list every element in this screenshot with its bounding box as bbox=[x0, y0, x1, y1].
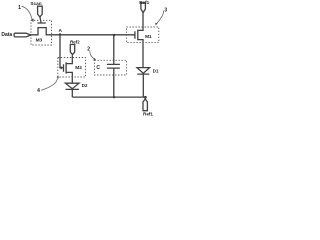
svg-text:Data: Data bbox=[1, 32, 12, 38]
svg-text:Ref1: Ref1 bbox=[143, 111, 153, 116]
svg-text:3: 3 bbox=[164, 8, 167, 14]
svg-text:C: C bbox=[96, 65, 100, 71]
svg-text:D1: D1 bbox=[153, 68, 159, 73]
svg-text:2: 2 bbox=[87, 47, 90, 53]
svg-text:D2: D2 bbox=[82, 83, 88, 88]
svg-text:M3: M3 bbox=[36, 38, 43, 44]
svg-text:Ref1: Ref1 bbox=[139, 0, 149, 5]
svg-text:1: 1 bbox=[18, 5, 21, 11]
svg-text:M2: M2 bbox=[75, 65, 82, 71]
svg-text:Ref2: Ref2 bbox=[70, 40, 80, 45]
svg-text:Scan: Scan bbox=[30, 1, 41, 6]
svg-text:A: A bbox=[58, 28, 62, 34]
svg-text:4: 4 bbox=[37, 88, 40, 94]
svg-text:M1: M1 bbox=[145, 34, 152, 40]
